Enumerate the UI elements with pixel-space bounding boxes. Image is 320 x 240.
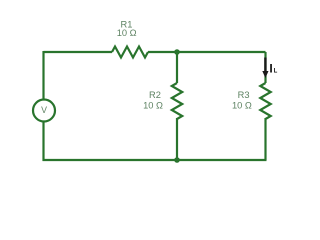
current arrow IL [262, 58, 268, 79]
svg-text:10 Ω: 10 Ω [232, 100, 252, 110]
wire left vertical bottom [42, 122, 44, 162]
svg-text:L: L [274, 69, 278, 75]
svg-text:R3: R3 [238, 90, 250, 100]
svg-text:10 Ω: 10 Ω [117, 28, 137, 38]
wire middle vertical bottom [176, 118, 178, 160]
node top junction [174, 49, 180, 55]
resistor R3 [260, 83, 270, 119]
wire top-right segment [148, 51, 266, 53]
resistor R1 [112, 47, 148, 58]
svg-text:V: V [41, 105, 47, 115]
wire bottom horizontal [43, 159, 267, 161]
wire right vertical bottom [264, 118, 266, 160]
wire right vertical top [264, 52, 266, 83]
svg-text:I: I [269, 62, 272, 76]
wire left vertical top [42, 51, 44, 100]
resistor R2 [172, 83, 182, 119]
wire top-left segment [44, 51, 113, 53]
svg-text:10 Ω: 10 Ω [143, 100, 163, 110]
node bottom junction [174, 157, 180, 163]
voltage source V [33, 100, 55, 122]
wire middle vertical top [176, 52, 178, 83]
svg-text:R2: R2 [149, 90, 161, 100]
